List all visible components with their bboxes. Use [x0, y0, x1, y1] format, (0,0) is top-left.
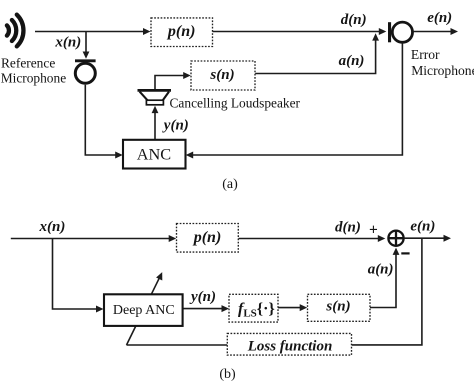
svg-text:ANC: ANC	[137, 145, 171, 164]
wire junction down to reference microphone	[85, 32, 87, 53]
wire loss function to adaptation diagonal	[127, 344, 228, 346]
reference microphone	[75, 61, 96, 83]
svg-text:x(n): x(n)	[54, 34, 81, 50]
wire reference mic to ANC	[85, 85, 119, 155]
cancelling loudspeaker	[138, 90, 172, 104]
ANC controller box	[123, 140, 186, 169]
Loss function box	[227, 333, 351, 355]
svg-text:a(n): a(n)	[368, 261, 394, 277]
adaptation arrow through Deep ANC	[127, 276, 161, 345]
svg-text:e(n): e(n)	[427, 10, 452, 26]
wire junction down to Deep ANC	[53, 239, 100, 310]
svg-text:Loss function: Loss function	[247, 339, 333, 355]
wire f_LS to s(n)	[278, 307, 304, 309]
svg-text:Deep ANC: Deep ANC	[113, 303, 175, 318]
svg-text:Microphone: Microphone	[1, 71, 67, 86]
svg-text:s(n): s(n)	[209, 67, 234, 83]
svg-text:Error: Error	[411, 47, 440, 62]
svg-text:Cancelling Loudspeaker: Cancelling Loudspeaker	[170, 95, 301, 110]
wire e(n) branch to loss function	[352, 238, 422, 345]
error microphone	[388, 22, 413, 42]
wire p(n) to summing node, d(n)	[239, 238, 382, 240]
wire x(n) input	[11, 238, 173, 240]
wire x(n) from source to p(n)	[35, 31, 147, 33]
svg-text:(b): (b)	[219, 367, 236, 382]
svg-text:y(n): y(n)	[189, 289, 216, 305]
wire p(n) to error microphone, d(n)	[213, 31, 383, 33]
minus sign	[401, 252, 409, 254]
svg-text:p(n): p(n)	[192, 229, 222, 246]
svg-text:Microphone: Microphone	[411, 63, 474, 78]
Deep ANC box	[104, 294, 183, 326]
svg-text:(a): (a)	[222, 177, 238, 192]
primary path p(n) box	[151, 18, 213, 47]
wire y(n): ANC to loudspeaker	[154, 109, 156, 140]
primary path p(n) box	[177, 224, 239, 253]
svg-text:d(n): d(n)	[335, 220, 361, 236]
wire s(n) to d(n) line, a(n)	[255, 37, 375, 74]
wire Deep ANC to f_LS, y(n)	[183, 308, 226, 310]
noise source (sound waves icon)	[7, 15, 24, 47]
secondary path s(n) box	[191, 61, 255, 90]
svg-text:Reference: Reference	[1, 56, 55, 71]
svg-text:e(n): e(n)	[410, 218, 435, 234]
wire error mic feedback to ANC	[189, 43, 402, 156]
summing node	[388, 231, 403, 246]
wire loudspeaker to s(n)	[155, 76, 187, 90]
svg-text:d(n): d(n)	[341, 12, 367, 28]
svg-text:a(n): a(n)	[339, 53, 365, 69]
svg-text:x(n): x(n)	[39, 219, 66, 235]
LS constraint f_LS{.} box	[229, 294, 278, 322]
svg-text:p(n): p(n)	[166, 23, 196, 40]
wire e(n) out	[413, 31, 455, 33]
wire e(n) out	[404, 237, 447, 239]
wire s(n) to summing node, a(n)	[370, 251, 396, 308]
svg-text:y(n): y(n)	[162, 118, 189, 134]
svg-text:s(n): s(n)	[325, 299, 350, 315]
secondary path s(n) box	[308, 294, 371, 321]
svg-text:+: +	[369, 222, 378, 239]
